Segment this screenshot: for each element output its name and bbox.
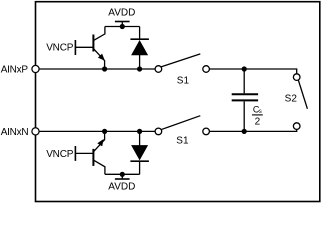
svg-text:AINxP: AINxP (1, 64, 29, 75)
junction: bottom emitter node (102, 129, 107, 134)
wire: S2 bottom to cap bottom (244, 129, 297, 131)
svg-text:S2: S2 (285, 94, 298, 105)
wire: cap top to S2 (244, 69, 297, 74)
junction: top emitter node (102, 66, 107, 71)
wire: VNCP to Q2 base (75, 152, 92, 154)
junction: AVDD stub (bottom) (120, 172, 125, 177)
svg-text:S1: S1 (176, 136, 189, 147)
junction: top diode node (137, 66, 142, 71)
svg-text:s: s (259, 109, 262, 115)
wire: S1 to cap bottom (bottom rail) (209, 130, 244, 132)
wire: Q1 collector rail to AVDD and D1 (105, 26, 140, 28)
net VNCP (top) terminal bar (74, 40, 76, 55)
diode D2 (bottom clamp to AVDD) (130, 131, 149, 174)
device boundary box (36, 2, 320, 202)
svg-text:AINxN: AINxN (1, 127, 29, 138)
svg-text:2: 2 (255, 116, 261, 127)
svg-text:VNCP: VNCP (46, 149, 74, 160)
junction: AVDD stub (top) (120, 24, 125, 29)
power AVDD (bottom) (108, 174, 135, 192)
terminal AINxN (32, 128, 39, 135)
terminal AINxP (32, 65, 39, 72)
wire: Q2 collector rail to AVDD and D2 (105, 173, 140, 175)
diode D1 (top clamp to AVDD) (130, 27, 149, 70)
wire: VNCP to Q1 base (75, 46, 92, 48)
svg-text:VNCP: VNCP (46, 43, 74, 54)
transistor Q1 (top clamp) (93, 27, 105, 70)
switch S1 (top) (155, 54, 209, 86)
transistor Q2 (bottom clamp) (93, 131, 105, 174)
junction: cap bottom (242, 129, 247, 134)
svg-text:AVDD: AVDD (108, 7, 135, 18)
svg-text:AVDD: AVDD (108, 182, 135, 193)
svg-text:S1: S1 (177, 75, 190, 86)
junction: cap top (242, 66, 247, 71)
value label Cs/2 (252, 104, 263, 127)
power AVDD (top) (108, 7, 135, 26)
net VNCP (bottom) terminal bar (74, 146, 76, 161)
capacitor Cs/2 (232, 69, 258, 131)
junction: bottom diode node (137, 129, 142, 134)
wire: S1 to sampling cap (top) (209, 68, 244, 70)
switch S1 (bottom) (155, 116, 209, 147)
wire: AINxN node to S1 (bottom rail) (39, 130, 155, 132)
switch S2 (285, 74, 308, 130)
wire: AINxP node to S1 (top rail) (39, 68, 155, 70)
